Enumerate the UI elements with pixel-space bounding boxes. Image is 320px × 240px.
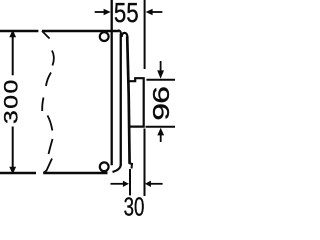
- break line dash 4: [42, 98, 43, 112]
- 300 top arrowhead (up): [9, 30, 16, 37]
- 96 bottom extension line: [146, 126, 176, 128]
- 30 right arrowhead (left): [145, 181, 151, 187]
- break line dash 1: [42, 31, 50, 39]
- right vertical line L3: [127, 37, 129, 164]
- cover back top arc: [122, 33, 128, 38]
- svg-text:55: 55: [114, 0, 139, 28]
- wall bracket protrusion outline: [130, 78, 144, 126]
- 96 top arrow tail: [160, 61, 162, 71]
- 55 right extension line: [144, 0, 146, 69]
- body bottom edge: [43, 172, 107, 175]
- break line dash 3: [46, 73, 51, 87]
- break line dash 2: [52, 51, 54, 66]
- middle vertical line L2: [120, 34, 122, 166]
- back plate line L1 (also 55 left extension): [111, 0, 113, 165]
- body top-right corner arc to middle line: [118, 30, 121, 34]
- break line dash 6: [49, 139, 53, 154]
- 55 right arrowhead (left): [146, 9, 153, 16]
- svg-text:30: 30: [124, 192, 145, 217]
- 30 right extension line: [144, 129, 146, 197]
- 30 left arrow tail: [111, 183, 125, 185]
- 30 left arrowhead (right): [123, 181, 129, 187]
- body top edge: [42, 30, 119, 33]
- break line dash 5: [48, 116, 53, 131]
- bottom roller circle: [100, 162, 109, 171]
- 300 dimension line upper segment: [12, 36, 14, 75]
- L3 bottom hook: [130, 163, 133, 168]
- 55 left arrow tail: [95, 11, 105, 13]
- 96 bottom arrowhead (up): [157, 128, 164, 136]
- break line dash 7: [44, 159, 53, 173]
- 300 dimension line lower segment: [12, 127, 14, 168]
- top roller circle: [100, 32, 109, 41]
- 300 bottom arrowhead (down): [9, 167, 16, 174]
- L2 bottom curve: [113, 165, 121, 172]
- 30 left extension line: [129, 169, 131, 195]
- 30 right arrow tail: [150, 183, 163, 185]
- top extension line (left, 300 top): [0, 30, 38, 33]
- 55 right arrow tail: [152, 11, 162, 13]
- svg-text:96: 96: [148, 86, 174, 121]
- 96 top arrowhead (down): [157, 70, 164, 78]
- 96 bottom arrow tail: [160, 135, 162, 142]
- 55 left arrowhead (right): [104, 9, 111, 16]
- 96 top extension line: [146, 79, 175, 81]
- svg-text:300: 300: [0, 80, 22, 124]
- bottom extension line (left, 300 bottom): [0, 172, 36, 175]
